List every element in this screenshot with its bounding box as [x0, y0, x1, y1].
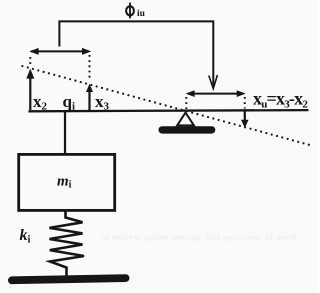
svg-text:qi: qi: [63, 92, 76, 113]
dotted vertical above xu arrow: [244, 97, 246, 109]
ground bar: [8, 274, 130, 284]
rod from beam to mass (wire): [64, 111, 66, 154]
svg-text:iu: iu: [137, 9, 146, 19]
dotted vertical at x2: [29, 57, 31, 66]
spring k_i: [50, 211, 85, 277]
svg-text:xu=x3-x2: xu=x3-x2: [253, 88, 308, 110]
top double arrow (distance x2..x3): [29, 48, 91, 55]
pivot base bar: [159, 126, 216, 133]
svg-text:x2: x2: [33, 92, 48, 113]
phi_iu label: [126, 3, 146, 20]
svg-text:x3: x3: [95, 92, 110, 113]
pivot triangle: [177, 113, 194, 126]
mass block m_i: [19, 154, 115, 210]
dotted vertical at pivot: [185, 97, 187, 109]
dotted vertical at x3: [89, 55, 91, 80]
right double arrow (distance on lever): [186, 90, 246, 97]
beam reference line: [29, 110, 309, 111]
x3 up arrow: [86, 84, 93, 110]
dotted tilted lever line: [22, 66, 311, 145]
svg-text:ki: ki: [20, 227, 31, 246]
x2 up arrow: [26, 69, 34, 110]
bracket from phi to lever (wire): [59, 21, 213, 86]
svg-text:al mlorm apion amcoq, lod qecu: al mlorm apion amcoq, lod qecuvno. al qe…: [102, 232, 296, 242]
open arrowhead of phi arrow: [209, 75, 218, 89]
xu down arrow: [241, 111, 249, 128]
